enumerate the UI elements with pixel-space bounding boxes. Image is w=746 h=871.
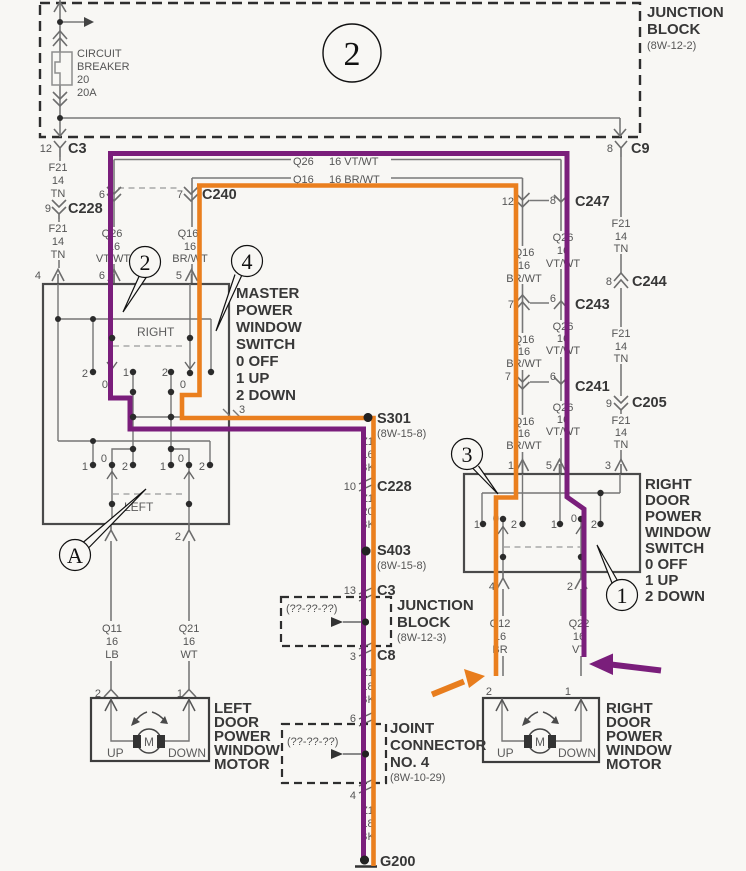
- svg-text:C241: C241: [575, 379, 610, 395]
- wire F21 TN right middle: [620, 288, 622, 396]
- svg-text:16: 16: [518, 428, 530, 440]
- svg-text:JOINT: JOINT: [390, 720, 434, 737]
- svg-text:1: 1: [82, 461, 88, 473]
- joint connector arrow lead: [331, 749, 343, 759]
- svg-text:5: 5: [546, 460, 552, 472]
- svg-text:1 UP: 1 UP: [645, 572, 678, 589]
- svg-text:C247: C247: [575, 194, 610, 210]
- svg-text:16 VT/WT: 16 VT/WT: [329, 156, 379, 168]
- pin 4 master switch: [52, 270, 64, 285]
- svg-text:C228: C228: [377, 479, 412, 495]
- svg-text:6: 6: [550, 371, 556, 383]
- svg-text:MASTER: MASTER: [236, 285, 300, 302]
- right motor rotation arc: [525, 712, 556, 723]
- ground G200: [360, 856, 369, 865]
- svg-text:(8W-15-8): (8W-15-8): [377, 560, 426, 572]
- pin 3 exit connector: [223, 409, 240, 417]
- svg-text:2: 2: [344, 36, 361, 73]
- svg-text:2: 2: [175, 531, 181, 543]
- svg-text:WINDOW: WINDOW: [645, 524, 712, 541]
- connector C228 9: [52, 200, 66, 219]
- wire label Q26 16 VT/WT vertical: [97, 227, 129, 264]
- svg-text:TN: TN: [614, 439, 629, 451]
- connector arrows above left motor: [104, 690, 118, 698]
- arrow right B+: [84, 17, 94, 27]
- svg-text:9: 9: [606, 398, 612, 410]
- svg-text:RIGHT: RIGHT: [645, 476, 692, 493]
- right door power window switch box: [464, 474, 640, 572]
- splice S403: [362, 547, 371, 556]
- svg-text:4: 4: [35, 270, 41, 282]
- double chevron up: [53, 31, 67, 46]
- svg-text:SWITCH: SWITCH: [236, 336, 295, 353]
- svg-text:14: 14: [615, 341, 627, 353]
- svg-text:BLOCK: BLOCK: [647, 21, 700, 38]
- connector C240 cavity 6: [107, 187, 121, 201]
- svg-text:1: 1: [565, 686, 571, 698]
- svg-text:DOWN: DOWN: [558, 746, 596, 760]
- connector C240 cavity 7: [184, 187, 198, 201]
- svg-text:WT: WT: [180, 649, 197, 661]
- wire label Q16 below C247: [507, 246, 541, 284]
- svg-text:Q21: Q21: [179, 623, 200, 635]
- svg-text:4: 4: [350, 790, 356, 802]
- svg-text:TN: TN: [614, 243, 629, 255]
- left motor M: [137, 729, 161, 753]
- svg-text:MOTOR: MOTOR: [606, 756, 662, 773]
- right door power window motor box: [483, 698, 599, 762]
- svg-text:Q26: Q26: [553, 321, 574, 333]
- svg-text:MOTOR: MOTOR: [214, 756, 270, 773]
- pin 3 right switch: [615, 460, 627, 475]
- connector C241 row: [516, 375, 530, 389]
- master switch internal wiring: [58, 284, 229, 524]
- svg-text:2: 2: [122, 461, 128, 473]
- purple highlight wire Q26/Q22/Z1: [111, 154, 585, 859]
- orange highlight wire Z1 ground: [182, 184, 374, 867]
- svg-text:7: 7: [177, 189, 183, 201]
- wire F21 14 TN lower: [58, 219, 60, 268]
- node dot feed: [57, 19, 63, 25]
- svg-text:1: 1: [160, 461, 166, 473]
- svg-text:5: 5: [176, 270, 182, 282]
- mechanical link dashed right switch: [504, 546, 580, 548]
- svg-text:3: 3: [239, 404, 245, 416]
- wire feed vertical in junction block: [60, 0, 620, 137]
- svg-text:4: 4: [242, 249, 253, 274]
- svg-text:C228: C228: [68, 201, 103, 217]
- svg-text:(8W-12-2): (8W-12-2): [647, 40, 696, 52]
- svg-text:BR/WT: BR/WT: [506, 273, 542, 285]
- svg-text:CONNECTOR: CONNECTOR: [390, 737, 487, 754]
- svg-text:C240: C240: [202, 187, 237, 203]
- svg-text:12: 12: [502, 196, 514, 208]
- svg-text:14: 14: [52, 175, 64, 187]
- svg-text:F21: F21: [612, 328, 631, 340]
- svg-text:Q26: Q26: [553, 232, 574, 244]
- svg-text:14: 14: [52, 236, 64, 248]
- svg-text:NO. 4: NO. 4: [390, 754, 430, 771]
- connector C205 9: [614, 396, 628, 410]
- pin 5 right switch: [554, 460, 566, 475]
- connector C3 13 crossing: [359, 587, 374, 601]
- svg-text:16: 16: [183, 636, 195, 648]
- splice S301: [364, 413, 373, 422]
- connector C243 row: [516, 295, 530, 310]
- wire label Q26 below C241: [546, 401, 580, 438]
- svg-text:C8: C8: [377, 648, 396, 664]
- svg-text:(8W-10-29): (8W-10-29): [390, 772, 445, 784]
- wire label Q16 below C241: [507, 415, 541, 452]
- svg-text:(8W-15-8): (8W-15-8): [377, 428, 426, 440]
- svg-text:C244: C244: [632, 274, 667, 290]
- svg-text:2: 2: [511, 519, 517, 531]
- right switch internal wiring: [482, 474, 620, 572]
- master power window switch box: [43, 284, 229, 524]
- wire label Q16 below C243: [507, 333, 541, 370]
- svg-text:VT/WT: VT/WT: [96, 253, 130, 265]
- svg-text:TN: TN: [51, 188, 66, 200]
- joint connector no 4 dashed box: [282, 724, 386, 783]
- orange highlight wire Q16/Q12 upper: [197, 186, 516, 677]
- svg-text:Q26: Q26: [553, 402, 574, 414]
- svg-text:F21: F21: [49, 223, 68, 235]
- wire label Q26 below C243: [546, 320, 580, 357]
- svg-text:16: 16: [518, 346, 530, 358]
- svg-text:Q12: Q12: [490, 618, 511, 630]
- svg-text:9: 9: [45, 203, 51, 215]
- connector C3 crossing arrow: [54, 129, 66, 136]
- svg-text:1: 1: [508, 460, 514, 472]
- svg-text:3: 3: [605, 460, 611, 472]
- svg-text:3: 3: [462, 442, 473, 467]
- big purple arrow: [611, 665, 661, 671]
- svg-text:12: 12: [40, 143, 52, 155]
- svg-text:BR/WT: BR/WT: [506, 358, 542, 370]
- wire Q26 16 VT/WT horizontal: [114, 160, 561, 475]
- svg-text:DOOR: DOOR: [645, 492, 690, 509]
- svg-text:20: 20: [77, 74, 89, 86]
- svg-text:JUNCTION: JUNCTION: [647, 4, 724, 21]
- svg-text:0: 0: [180, 379, 186, 391]
- svg-text:F21: F21: [612, 218, 631, 230]
- connector C3 12: [54, 141, 66, 157]
- svg-text:VT/WT: VT/WT: [546, 426, 580, 438]
- svg-text:2: 2: [140, 250, 151, 275]
- svg-text:14: 14: [615, 427, 627, 439]
- svg-text:0: 0: [571, 513, 577, 525]
- svg-text:2: 2: [486, 686, 492, 698]
- svg-text:16: 16: [184, 241, 196, 253]
- svg-text:S301: S301: [377, 411, 411, 427]
- svg-text:F21: F21: [612, 415, 631, 427]
- switch contact arrows RIGHT: [107, 362, 195, 369]
- callout balloon 2 top: [323, 24, 381, 82]
- double chevron down: [53, 92, 67, 106]
- svg-text:LB: LB: [105, 649, 118, 661]
- svg-text:UP: UP: [497, 746, 514, 760]
- svg-text:2: 2: [162, 367, 168, 379]
- svg-text:0: 0: [102, 379, 108, 391]
- svg-text:1: 1: [474, 519, 480, 531]
- svg-text:7: 7: [505, 371, 511, 383]
- svg-text:JUNCTION: JUNCTION: [397, 597, 474, 614]
- wire F21 TN right upper: [620, 157, 622, 273]
- svg-text:M: M: [144, 735, 154, 749]
- callout balloon 3: [473, 466, 499, 494]
- circuit breaker 20: [52, 52, 72, 85]
- contact arrows right switch: [498, 527, 586, 535]
- arrow up crossing top edge: [54, 2, 66, 12]
- svg-text:POWER: POWER: [236, 302, 293, 319]
- svg-text:G200: G200: [380, 854, 415, 870]
- svg-text:BR/WT: BR/WT: [506, 440, 542, 452]
- svg-text:2: 2: [82, 368, 88, 380]
- svg-text:2: 2: [567, 581, 573, 593]
- callout balloon A: [83, 489, 146, 548]
- svg-text:CIRCUIT: CIRCUIT: [77, 48, 122, 60]
- svg-text:0: 0: [101, 453, 107, 465]
- svg-text:SWITCH: SWITCH: [645, 540, 704, 557]
- svg-text:C3: C3: [68, 141, 87, 157]
- node dot bus: [57, 115, 63, 121]
- svg-text:10: 10: [344, 481, 356, 493]
- junction dots right switch: [480, 490, 604, 560]
- pin 6 master switch: [108, 270, 120, 285]
- svg-text:BREAKER: BREAKER: [77, 61, 130, 73]
- svg-text:2 DOWN: 2 DOWN: [645, 588, 705, 605]
- svg-text:WINDOW: WINDOW: [236, 319, 303, 336]
- wire Q11 left: [110, 541, 112, 689]
- svg-text:3: 3: [350, 651, 356, 663]
- svg-text:1: 1: [123, 367, 129, 379]
- mechanical link dashed LEFT: [113, 493, 183, 495]
- left motor pin arrows: [105, 700, 195, 712]
- right motor internal wires: [502, 698, 581, 741]
- connector C244 8: [614, 273, 628, 288]
- wire label Q26 below C247: [546, 231, 580, 269]
- svg-text:(??-??-??): (??-??-??): [287, 736, 338, 748]
- svg-text:C9: C9: [631, 141, 650, 157]
- joint connector 4 crossing: [359, 779, 374, 793]
- svg-text:8: 8: [607, 143, 613, 155]
- callout balloon 1: [597, 545, 618, 583]
- svg-text:Q16: Q16: [178, 228, 199, 240]
- svg-text:A: A: [67, 543, 83, 568]
- re-draw dots over highlights: [364, 413, 373, 422]
- connector C9 8: [615, 141, 627, 157]
- svg-text:RIGHT: RIGHT: [137, 325, 175, 339]
- svg-text:16: 16: [518, 260, 530, 272]
- junction block arrow lead: [331, 617, 343, 627]
- wire F21 TN right lower: [620, 410, 622, 460]
- svg-text:0 OFF: 0 OFF: [236, 353, 279, 370]
- svg-text:2: 2: [591, 519, 597, 531]
- wire Q21 right: [188, 541, 190, 689]
- svg-text:POWER: POWER: [645, 508, 702, 525]
- connector C240 link dashed: [118, 187, 181, 189]
- svg-text:VT/WT: VT/WT: [546, 345, 580, 357]
- svg-text:M: M: [535, 735, 545, 749]
- left motor rotation arc: [134, 712, 165, 723]
- wire Q12: [502, 589, 504, 676]
- connector C8 3 crossing: [359, 642, 374, 656]
- left door power window motor box: [91, 698, 209, 761]
- svg-text:7: 7: [508, 299, 514, 311]
- svg-text:13: 13: [344, 585, 356, 597]
- svg-text:6: 6: [99, 270, 105, 282]
- wire Q22: [580, 589, 582, 676]
- callout balloon 2 master switch: [123, 277, 147, 313]
- svg-text:(??-??-??): (??-??-??): [286, 603, 337, 615]
- pin exits bottom master: [105, 524, 117, 541]
- right motor M: [528, 729, 552, 753]
- svg-text:2: 2: [199, 461, 205, 473]
- svg-text:20A: 20A: [77, 87, 97, 99]
- big orange arrow: [432, 682, 464, 695]
- svg-text:1: 1: [551, 519, 557, 531]
- right motor pin arrows: [496, 700, 587, 712]
- mechanical link dashed RIGHT: [113, 345, 183, 347]
- svg-text:UP: UP: [107, 746, 124, 760]
- svg-text:TN: TN: [614, 353, 629, 365]
- svg-text:8: 8: [550, 195, 556, 207]
- svg-text:TN: TN: [51, 249, 66, 261]
- wire label Q16 16 BR/WT vertical: [173, 227, 207, 264]
- svg-text:8: 8: [606, 276, 612, 288]
- pin 1 right switch: [517, 460, 529, 475]
- junction dots master switch: [55, 316, 214, 507]
- svg-text:F21: F21: [49, 162, 68, 174]
- svg-text:BLOCK: BLOCK: [397, 614, 450, 631]
- svg-text:C243: C243: [575, 297, 610, 313]
- connector C9 crossing arrow: [614, 129, 626, 136]
- left motor internal wires: [111, 698, 189, 741]
- svg-text:14: 14: [615, 231, 627, 243]
- junction block 8W-12-3 dashed box: [281, 597, 391, 646]
- svg-text:Q26: Q26: [293, 156, 314, 168]
- svg-text:DOWN: DOWN: [168, 746, 206, 760]
- svg-text:6: 6: [99, 189, 105, 201]
- svg-text:BR/WT: BR/WT: [172, 253, 208, 265]
- connector C247 row: [516, 193, 530, 207]
- svg-text:0 OFF: 0 OFF: [645, 556, 688, 573]
- svg-text:2 DOWN: 2 DOWN: [236, 387, 296, 404]
- svg-text:0: 0: [178, 453, 184, 465]
- joint connector 6 crossing: [359, 712, 374, 726]
- svg-text:16: 16: [106, 636, 118, 648]
- switch contact arrows LEFT: [107, 472, 194, 480]
- callout balloon 4: [216, 275, 242, 332]
- wire Q16 16 BR/WT horizontal: [192, 178, 523, 474]
- pin 5 master switch: [186, 270, 198, 285]
- svg-text:(8W-12-3): (8W-12-3): [397, 632, 446, 644]
- svg-text:Q11: Q11: [102, 623, 122, 635]
- wire F21 14 TN upper: [59, 157, 61, 198]
- svg-text:1: 1: [617, 583, 628, 608]
- svg-text:VT/WT: VT/WT: [546, 258, 580, 270]
- svg-text:1 UP: 1 UP: [236, 370, 269, 387]
- connector C228 10 crossing: [359, 477, 374, 491]
- svg-text:S403: S403: [377, 543, 411, 559]
- pin exits bottom right switch: [497, 572, 509, 589]
- svg-text:6: 6: [550, 293, 556, 305]
- svg-text:C205: C205: [632, 395, 667, 411]
- junction block 8W-12-2 (dashed box): [40, 3, 640, 137]
